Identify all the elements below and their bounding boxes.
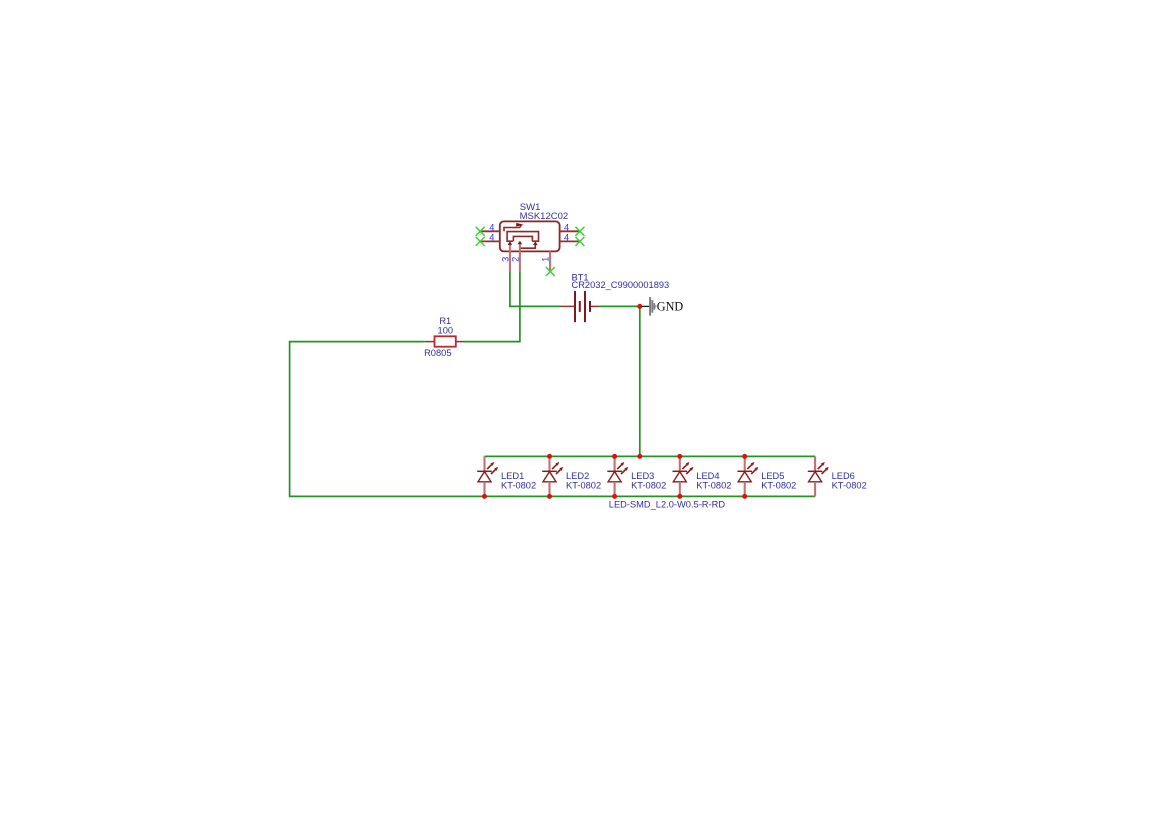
junction dot top rail x=679.8 [677,454,682,459]
svg-text:LED4: LED4 [696,471,719,481]
svg-text:LED1: LED1 [501,471,524,481]
battery BT1 plate short 1 [579,301,581,312]
switch SW1 outer contact bracket [507,232,538,242]
switch SW1 pin 4 left-bottom [480,240,500,242]
switch SW1 pin 3 [509,245,511,272]
resistor R1 pin left [425,341,435,343]
switch SW1 pin 2 [519,244,521,271]
svg-text:CR2032_C9900001893: CR2032_C9900001893 [572,280,670,290]
svg-text:1: 1 [541,257,551,262]
junction dot top rail x=614.6 [612,454,617,459]
svg-text:R0805: R0805 [424,348,451,358]
svg-text:4: 4 [489,233,494,243]
svg-text:KT-0802: KT-0802 [832,481,867,491]
junction dot top rail x=744.7 [742,454,747,459]
junction dot top rail x=639.8 [637,454,642,459]
switch SW1 pin 4 right-top [560,230,580,232]
switch SW1 contact arrow left [508,241,513,245]
svg-text:MSK12C02: MSK12C02 [520,211,569,222]
battery BT1 plate tall 2 [584,291,586,322]
junction dot bottom rail x=484.5 [482,494,487,499]
wire battery to junction [600,305,640,307]
junction dot bottom rail x=679.8 [677,494,682,499]
LED5 KT-0802 [737,456,796,496]
no-connect X right-bottom [575,237,584,246]
LED3 KT-0802 [607,456,666,496]
switch SW1 body [500,221,560,251]
svg-text:KT-0802: KT-0802 [696,481,731,491]
wire R1 left around to bottom rail [290,342,816,497]
switch SW1 inner link wire [520,245,535,249]
junction dot bottom rail x=549.5 [547,494,552,499]
svg-text:LED-SMD_L2.0-W0.5-R-RD: LED-SMD_L2.0-W0.5-R-RD [609,500,726,510]
switch SW1 pin 4 right-bottom [560,240,580,242]
svg-text:LED5: LED5 [761,471,784,481]
junction dot battery-gnd node [637,304,642,309]
no-connect X left-top [476,227,485,236]
LED4 KT-0802 [673,456,732,496]
battery BT1 plate tall 1 [574,291,576,322]
svg-text:KT-0802: KT-0802 [761,481,796,491]
svg-text:KT-0802: KT-0802 [501,481,536,491]
svg-text:100: 100 [438,326,454,336]
wire switch pin3 to battery [510,272,561,307]
svg-text:2: 2 [510,257,520,262]
battery BT1 plate short 2 [589,301,591,312]
switch SW1 contact arrow right [533,241,538,245]
LED1 KT-0802 [477,456,536,496]
junction dot bottom rail x=744.7 [742,494,747,499]
svg-text:LED6: LED6 [832,471,855,481]
no-connect X pin1 [546,267,555,276]
svg-text:LED2: LED2 [566,471,589,481]
svg-text:3: 3 [500,257,510,262]
switch SW1 pin 4 left-top [480,230,500,232]
resistor R1 pin right [456,341,464,343]
LED6 KT-0802 [808,456,867,496]
svg-text:LED3: LED3 [631,471,654,481]
switch SW1 slide arrow [504,223,524,231]
LED2 KT-0802 [542,456,601,496]
svg-text:KT-0802: KT-0802 [631,481,666,491]
junction dot top rail x=549.5 [547,454,552,459]
svg-text:4: 4 [564,233,569,243]
battery BT1 pin right [590,305,600,307]
svg-text:KT-0802: KT-0802 [566,481,601,491]
svg-text:GND: GND [657,299,684,313]
ground symbol [649,297,656,316]
switch SW1 contact arrow mid [518,241,523,245]
no-connect X left-bottom [476,237,485,246]
wire junction down to LED top rail [639,306,641,456]
svg-text:4: 4 [564,222,569,232]
battery BT1 pin left [561,305,575,307]
wire top rail [485,455,816,457]
svg-text:4: 4 [489,222,494,232]
wire switch pin2 to R1 [464,272,520,342]
junction dot bottom rail x=614.6 [612,494,617,499]
switch SW1 pin 1 [549,251,551,271]
switch SW1 inner contact bracket [513,236,532,241]
gnd wire stub [642,305,650,307]
no-connect X right-top [575,227,584,236]
resistor R1 body [435,336,456,346]
svg-text:R1: R1 [439,316,451,326]
